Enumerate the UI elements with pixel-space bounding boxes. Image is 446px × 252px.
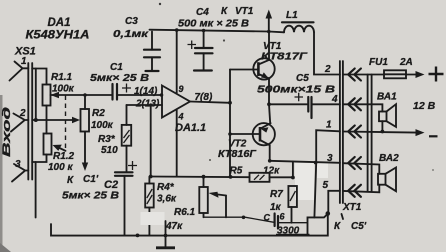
connector XS1 body	[28, 63, 32, 180]
wire pin2 row	[32, 119, 74, 121]
ground symbol	[156, 221, 175, 248]
wire R2 top	[84, 95, 86, 109]
wire row4 to BA1	[343, 104, 383, 111]
svg-text:R1.1: R1.1	[51, 72, 73, 83]
svg-text:К: К	[67, 175, 74, 186]
label К С5'	[342, 214, 344, 219]
fuse FU1	[384, 70, 406, 78]
wire C6 right	[278, 222, 308, 224]
node wiper/R2	[83, 93, 87, 97]
svg-text:R3*: R3*	[98, 134, 116, 145]
svg-text:С1': С1'	[83, 174, 99, 185]
wire C3 bottom to ground bar	[151, 57, 153, 70]
eraser smudge	[141, 212, 165, 225]
wire inverting input down to R4 node	[150, 105, 152, 177]
transistor VT1	[253, 58, 274, 79]
wire pin3 down stub	[35, 162, 37, 218]
wire row3 to BA2	[343, 163, 379, 174]
svg-text:Вход: Вход	[1, 107, 13, 157]
svg-text:2: 2	[324, 64, 331, 75]
wire R7 bottom	[291, 207, 293, 223]
svg-text:VT1: VT1	[235, 6, 254, 17]
op-amp DA1.1	[162, 86, 190, 118]
svg-text:С4: С4	[196, 7, 209, 18]
wire ground column down	[314, 163, 316, 218]
capacitor C6	[275, 214, 278, 229]
node wire y176	[151, 176, 250, 179]
svg-text:FU1: FU1	[369, 57, 388, 68]
wire output node row4 to C5	[269, 103, 307, 105]
wire R5 right to R7 column	[270, 176, 293, 178]
svg-text:3,6к: 3,6к	[157, 194, 177, 205]
wire row2 to fuse	[343, 74, 384, 76]
wire R2 bottom with arrow К С1'	[84, 132, 86, 164]
wire fuse to plus arrow	[406, 74, 417, 76]
svg-text:R4*: R4*	[157, 182, 175, 193]
svg-text:2(13): 2(13)	[135, 99, 160, 110]
wire C5 to XT1 row4	[312, 103, 340, 105]
wire row5 left drop	[328, 191, 340, 213]
minus terminal	[429, 135, 438, 137]
wire pin1 to R1.1 top	[32, 69, 46, 85]
svg-text:С5: С5	[296, 73, 309, 84]
svg-text:5: 5	[323, 180, 329, 191]
svg-text:1: 1	[326, 120, 332, 131]
capacitor C2	[115, 161, 137, 176]
svg-text:7(8): 7(8)	[195, 92, 213, 103]
svg-text:1: 1	[21, 56, 27, 67]
R1.2 wiper arrow	[60, 148, 66, 151]
R2 wiper arrow	[72, 117, 80, 123]
pin 2 of XS1	[11, 108, 28, 132]
wire VT1 base	[230, 69, 258, 71]
resistor R1.1	[43, 85, 51, 106]
wire VT1 collector up	[268, 32, 270, 61]
inductor L1	[282, 22, 314, 32]
wire bases column	[229, 70, 231, 177]
resistor R3	[122, 125, 132, 146]
wire R3 bottom to C2	[126, 146, 128, 171]
svg-text:0,1мк: 0,1мк	[113, 29, 149, 40]
svg-text:К: К	[334, 221, 341, 232]
svg-text:R6.1: R6.1	[174, 207, 196, 218]
capacitor C1	[113, 84, 132, 100]
wire R1.2 bottom to pin3 row	[32, 155, 46, 163]
wire VT2 emitter up to node	[269, 104, 270, 123]
wire row1 minus	[343, 132, 417, 133]
svg-text:КТ816Г: КТ816Г	[218, 149, 257, 160]
ground bar under C3	[146, 70, 159, 72]
svg-text:4: 4	[331, 94, 338, 105]
svg-text:L1: L1	[286, 10, 298, 21]
wire R1.1 wiper row to C1	[51, 94, 112, 96]
pin 9	[176, 30, 178, 93]
svg-text:100 к: 100 к	[48, 162, 73, 173]
contact chevrons row5	[348, 185, 361, 197]
speaker pair wires	[368, 75, 372, 191]
top supply rail	[150, 30, 269, 32]
svg-text:R5: R5	[230, 166, 243, 177]
transistor VT2	[253, 123, 275, 145]
plus terminal	[429, 67, 444, 82]
resistor R6.1	[199, 187, 208, 213]
contact chevrons row2	[348, 69, 361, 81]
ground rail	[51, 214, 328, 236]
wire inverting input to R3	[126, 105, 128, 125]
svg-text:VT2: VT2	[228, 139, 247, 150]
wire branch to КС5 node	[308, 214, 328, 236]
svg-text:2А: 2А	[399, 57, 413, 68]
wire rail junction to L1	[269, 31, 284, 34]
wire VT2 base	[230, 133, 260, 135]
svg-text:R2: R2	[92, 108, 105, 119]
svg-text:12к: 12к	[263, 166, 280, 177]
input 2(13) wire	[127, 104, 163, 106]
wire L1 right down to row2	[314, 32, 340, 74]
resistor R7	[288, 186, 297, 207]
wire R7 column up to row3	[292, 162, 294, 178]
pin 3 of XS1	[12, 159, 28, 182]
svg-text:ВА1: ВА1	[377, 92, 397, 103]
contact chevrons row4	[348, 98, 361, 110]
svg-text:DA1: DA1	[48, 17, 71, 29]
svg-text:R1.2: R1.2	[53, 151, 75, 162]
resistor R2	[81, 109, 90, 132]
svg-text:100к: 100к	[91, 120, 114, 131]
resistor R4	[145, 184, 154, 208]
light erased zone	[295, 163, 314, 200]
speaker BA1	[379, 104, 396, 127]
svg-text:4: 4	[178, 112, 184, 122]
capacitor C4	[188, 41, 213, 54]
svg-text:ВА2: ВА2	[379, 153, 399, 164]
contact chevrons row3	[348, 157, 361, 169]
capacitor C3	[144, 50, 160, 58]
wire R4 top	[148, 177, 150, 184]
wire to C6	[204, 217, 275, 222]
wire C2 bottom to rail	[124, 176, 126, 236]
svg-text:С1: С1	[110, 62, 123, 73]
pin 1 of XS1	[10, 56, 29, 81]
resistor R5	[250, 173, 270, 182]
wire R4 bottom to rail	[148, 208, 150, 236]
wire R6.1 top	[203, 177, 205, 188]
wire VT1 emitter down to node	[268, 79, 270, 105]
ground bar under C4	[194, 69, 212, 71]
svg-text:DA1.1: DA1.1	[175, 122, 206, 134]
capacitor C5	[295, 93, 312, 118]
scan edge artifacts	[0, 95, 3, 252]
wire row1 left stub	[316, 130, 340, 163]
svg-text:С5': С5'	[351, 221, 367, 232]
wire BA2 bottom to row5	[343, 185, 379, 193]
wire C1 to op-amp input 1(14)	[117, 94, 162, 96]
svg-text:С2: С2	[104, 179, 118, 191]
pin 4	[176, 110, 178, 177]
svg-text:100к: 100к	[52, 84, 75, 95]
wire C4 bottom to ground bar	[203, 53, 205, 70]
svg-text:5мк× 25 В: 5мк× 25 В	[90, 73, 149, 84]
resistor R1.2	[44, 134, 52, 155]
svg-text:9: 9	[179, 84, 184, 94]
svg-text:510: 510	[101, 145, 118, 156]
R1.1 wiper arrow	[51, 92, 60, 98]
svg-text:R7: R7	[270, 189, 283, 200]
svg-text:К: К	[221, 6, 228, 17]
wire pin1 branch down	[35, 69, 37, 121]
output wire 7(8)	[190, 102, 230, 103]
pot coupling dashed line	[65, 96, 67, 150]
specks	[159, 3, 161, 5]
svg-text:12 В: 12 В	[413, 100, 436, 112]
svg-text:500 мк × 25 В: 500 мк × 25 В	[178, 19, 249, 30]
speaker BA2	[378, 168, 396, 192]
svg-text:1(14): 1(14)	[134, 86, 158, 97]
svg-text:ХТ1: ХТ1	[342, 202, 362, 213]
svg-text:С: С	[264, 213, 271, 223]
svg-text:С3: С3	[125, 16, 138, 27]
contact chevrons row1	[348, 126, 361, 138]
svg-text:КТ817Г: КТ817Г	[261, 51, 308, 62]
svg-text:500мк×15 В: 500мк×15 В	[257, 85, 335, 96]
svg-text:47к: 47к	[165, 221, 183, 232]
wire VT2 collector row3	[270, 161, 340, 163]
wire C4 top to rail	[203, 31, 205, 49]
wire R6.1 bottom	[203, 213, 205, 217]
R6.1 wiper arrow	[214, 194, 226, 196]
wire BA1 bottom to row1	[381, 121, 383, 131]
wire VT2 collector down	[269, 145, 271, 161]
arrow К VT1 up	[268, 17, 270, 32]
connector XT1 body	[340, 61, 343, 203]
svg-text:5мк× 25 В: 5мк× 25 В	[62, 191, 119, 202]
wire C3 top to rail	[151, 32, 153, 50]
svg-text:К548УН1А: К548УН1А	[26, 30, 90, 42]
wire R1.1 bottom to R1.2 top	[46, 106, 48, 134]
